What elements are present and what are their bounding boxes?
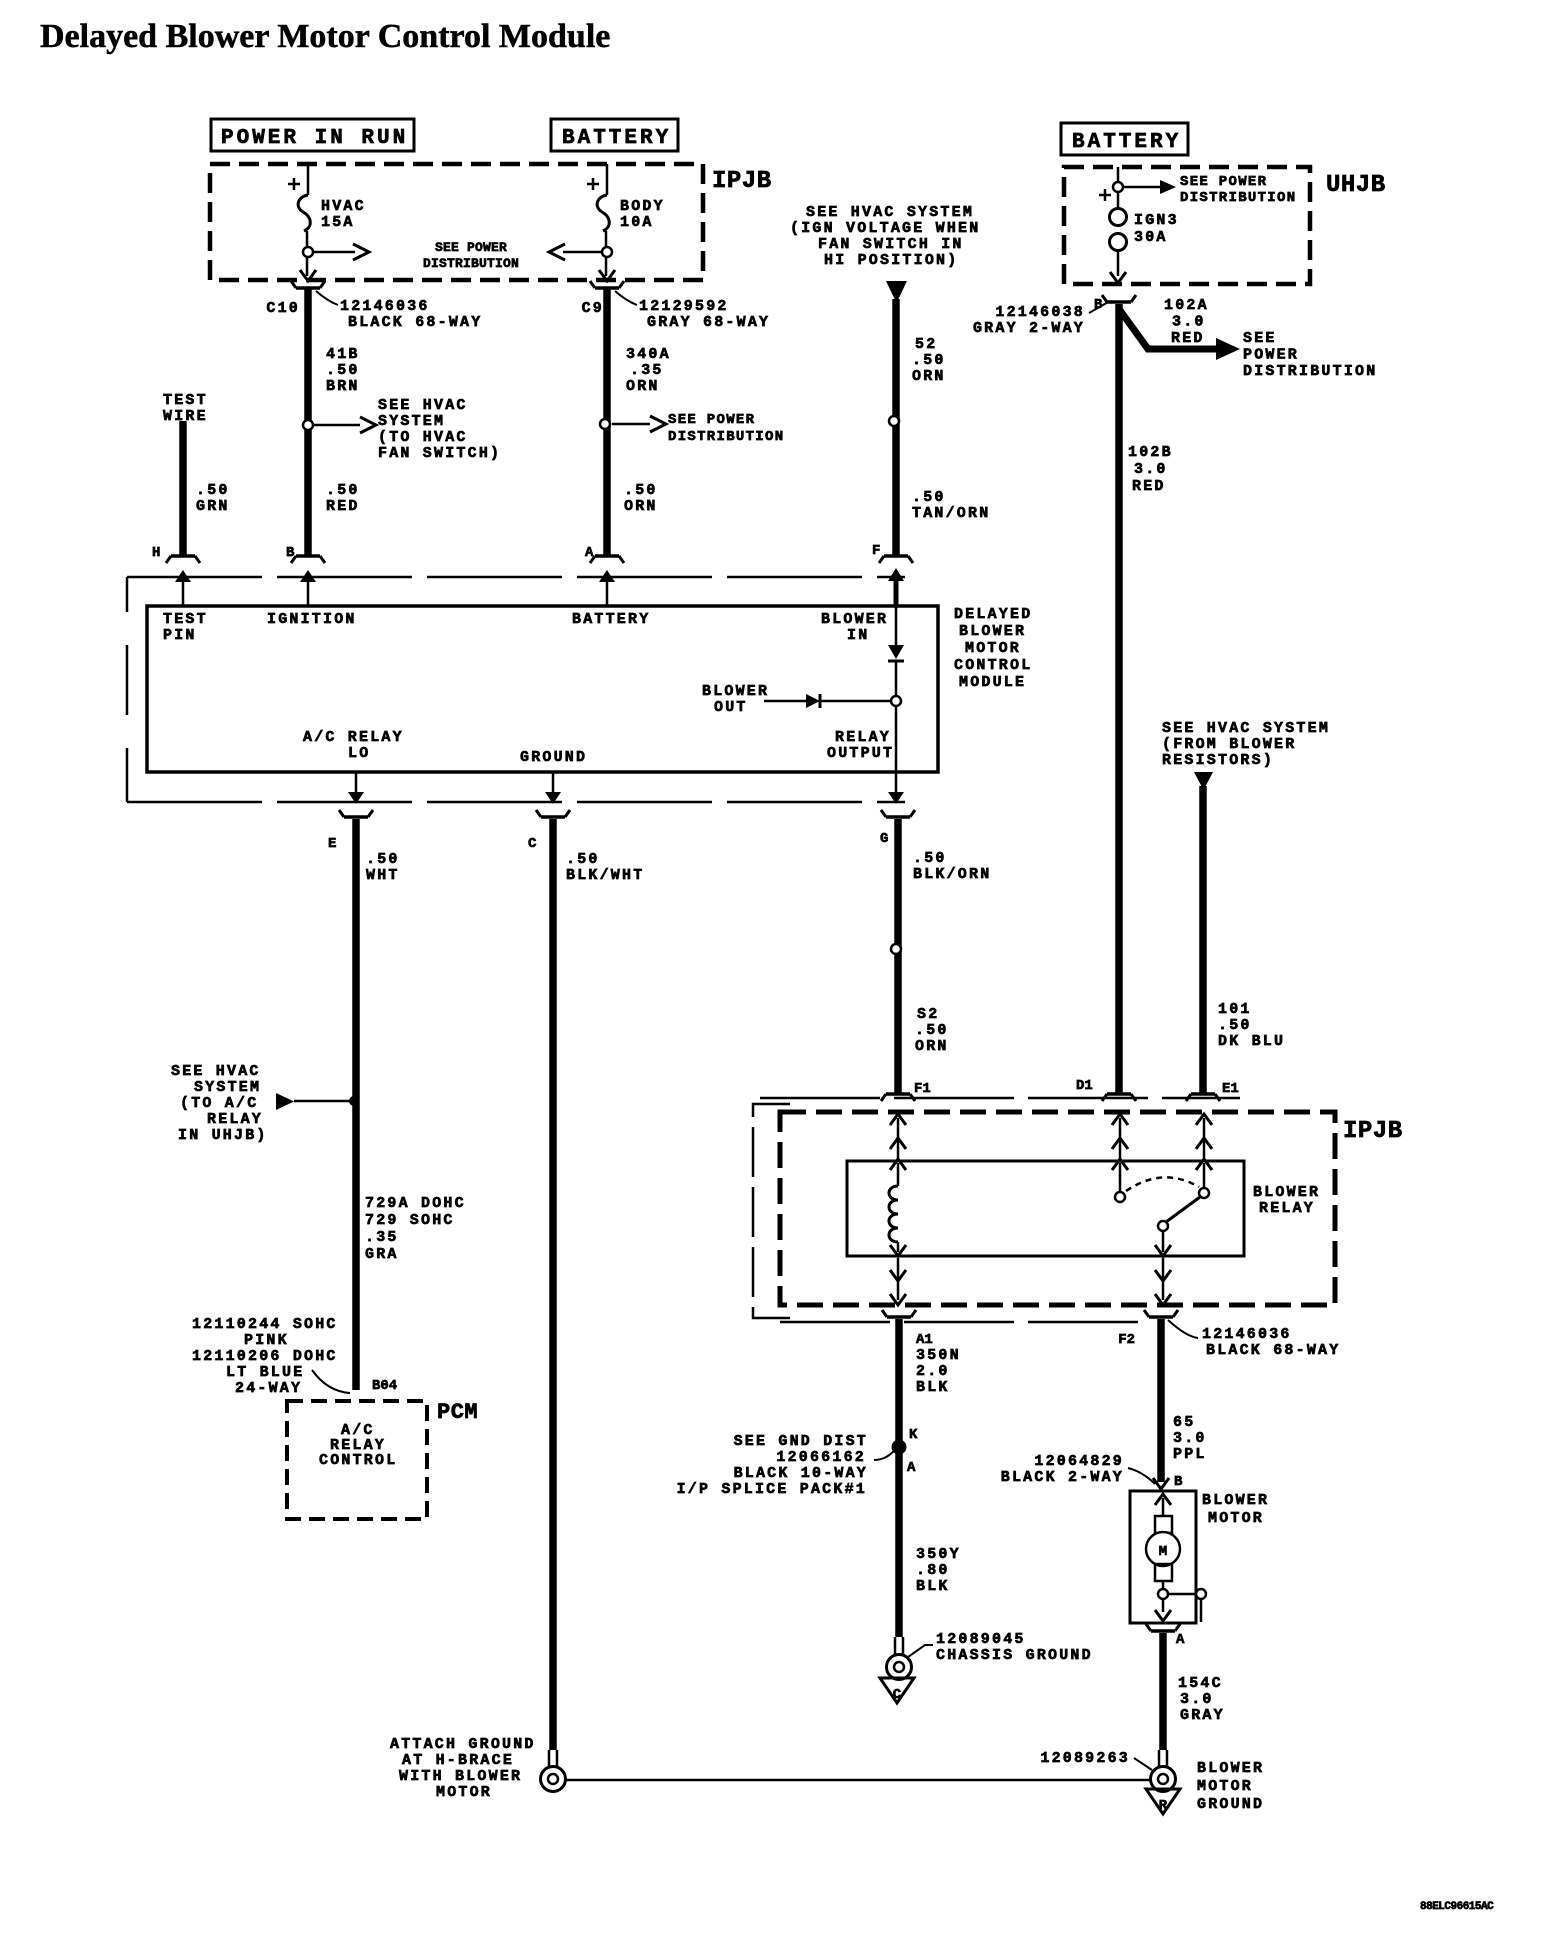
svg-text:BATTERY: BATTERY: [1072, 131, 1181, 154]
pin A1 pass-through arrows (coil ground): [890, 1258, 906, 1305]
svg-text:B04: B04: [372, 1378, 397, 1394]
pin D1 (IPJB): [1076, 1078, 1093, 1094]
node POWER IN RUN (source box): [211, 119, 414, 151]
svg-text:RED: RED: [1132, 478, 1166, 495]
svg-text:RESISTORS): RESISTORS): [1162, 752, 1274, 769]
motor brush (top): [1155, 1516, 1172, 1533]
svg-text:BLOWER: BLOWER: [1197, 1760, 1264, 1777]
pin arrow G relay output: [827, 729, 904, 804]
svg-text:H: H: [152, 545, 160, 561]
svg-text:M: M: [1159, 1544, 1167, 1560]
svg-text:BLOWER: BLOWER: [1202, 1492, 1269, 1509]
svg-text:CONTROL: CONTROL: [319, 1452, 397, 1469]
svg-text:BLK/WHT: BLK/WHT: [566, 867, 644, 884]
pin F1 (IPJB): [914, 1081, 931, 1097]
svg-text:RED: RED: [326, 498, 360, 515]
connector 12089263: [1040, 1750, 1152, 1770]
svg-text:.50: .50: [326, 482, 360, 499]
wire 102A 3.0 RED branch: [1119, 309, 1240, 360]
label 65 3.0 PPL: [1173, 1414, 1207, 1463]
svg-text:(IGN VOLTAGE WHEN: (IGN VOLTAGE WHEN: [790, 220, 980, 237]
svg-text:GRAY 68-WAY: GRAY 68-WAY: [647, 314, 770, 331]
svg-text:IPJB: IPJB: [1343, 1118, 1403, 1145]
pin A (module battery): [585, 545, 594, 561]
label 102B 3.0 RED: [1128, 444, 1173, 495]
node splice to power distribution: [600, 419, 610, 429]
connector end A: [590, 556, 624, 563]
pin C: [528, 836, 537, 852]
label ATTACH GROUND AT H-BRACE WITH BLOWER MOTOR: [390, 1736, 536, 1801]
svg-text:SEE: SEE: [1243, 330, 1277, 347]
svg-text:12110244 SOHC: 12110244 SOHC: [192, 1316, 338, 1333]
svg-text:BATTERY: BATTERY: [572, 611, 650, 628]
svg-text:GRA: GRA: [365, 1246, 399, 1263]
svg-text:41B: 41B: [326, 346, 360, 363]
svg-text:LO: LO: [348, 745, 370, 762]
junction block IPJB (instrument panel): [210, 164, 703, 280]
svg-text:FAN SWITCH): FAN SWITCH): [378, 445, 501, 462]
svg-text:.80: .80: [916, 1562, 950, 1579]
svg-text:IGNITION: IGNITION: [267, 611, 357, 628]
wire 350 BLK/WHT (ground): [536, 810, 570, 1750]
connector face line (IPJB top): [760, 1097, 1240, 1100]
svg-text:3.0: 3.0: [1173, 1430, 1207, 1447]
svg-text:PIN: PIN: [163, 627, 197, 644]
svg-text:ORN: ORN: [626, 378, 660, 395]
svg-text:GRAY: GRAY: [1180, 1707, 1225, 1724]
wire fuse HVAC output: [306, 231, 309, 276]
svg-text:SEE HVAC: SEE HVAC: [171, 1063, 261, 1080]
svg-text:.50: .50: [366, 851, 400, 868]
label 12089045 CHASSIS GROUND: [908, 1631, 1093, 1664]
relay switch output: [1155, 1231, 1171, 1256]
svg-text:.50: .50: [913, 850, 947, 867]
fuse BODY 10A: [597, 195, 665, 231]
label .50 WHT: [366, 851, 400, 884]
wire 65 3.0 PPL: [1144, 1310, 1178, 1482]
label SEE HVAC SYSTEM (IGN VOLTAGE WHEN FAN SWITCH IN HI POSITION): [790, 204, 980, 269]
label BLOWER RELAY: [1253, 1184, 1320, 1217]
svg-text:88ELC96615AC: 88ELC96615AC: [1420, 1901, 1494, 1913]
svg-text:.50: .50: [566, 851, 600, 868]
svg-text:D1: D1: [1076, 1078, 1093, 1094]
pin B (module ignition): [286, 545, 295, 561]
connector C9 12129592 GRAY 68-WAY: [582, 281, 771, 331]
polarity + (IGN3): [1099, 189, 1111, 201]
diode blower out (internal): [764, 694, 891, 708]
document number: [1420, 1901, 1494, 1913]
svg-text:BLACK 2-WAY: BLACK 2-WAY: [1001, 1469, 1124, 1486]
node BATTERY (source box, UHJB): [1061, 123, 1188, 155]
svg-text:PPL: PPL: [1173, 1446, 1207, 1463]
svg-text:.35: .35: [365, 1229, 399, 1246]
node BODY fuse tap: [602, 247, 612, 257]
svg-text:GRN: GRN: [196, 498, 230, 515]
svg-text:24-WAY: 24-WAY: [235, 1380, 302, 1397]
svg-text:BLOWER: BLOWER: [959, 623, 1026, 640]
svg-text:15A: 15A: [321, 214, 355, 231]
label 102A 3.0 RED: [1164, 297, 1209, 347]
svg-text:GROUND: GROUND: [520, 749, 587, 766]
diode (blower in, internal): [888, 607, 904, 697]
svg-text:C9: C9: [582, 300, 604, 317]
pin E: [328, 836, 336, 852]
module boundary (connector face lines): [127, 577, 905, 802]
svg-text:12066162: 12066162: [776, 1449, 866, 1466]
relay contact E1: [1196, 1159, 1212, 1198]
label BLOWER OUT: [702, 683, 769, 716]
svg-text:IN UHJB): IN UHJB): [178, 1127, 268, 1144]
module DELAYED BLOWER MOTOR CONTROL MODULE body: [147, 606, 938, 772]
connector end H: [166, 556, 200, 563]
svg-text:.50: .50: [326, 362, 360, 379]
svg-text:ORN: ORN: [624, 498, 658, 515]
label SEE POWER DISTRIBUTION (102A): [1243, 330, 1377, 380]
svg-text:POWER: POWER: [1243, 347, 1299, 364]
label SEE HVAC SYSTEM (TO A/C RELAY IN UHJB): [171, 1063, 268, 1144]
wire fuse BODY output: [605, 231, 608, 276]
svg-text:12089045: 12089045: [936, 1631, 1026, 1648]
pin B (blower motor): [1174, 1474, 1183, 1490]
svg-text:SEE HVAC SYSTEM: SEE HVAC SYSTEM: [1162, 720, 1330, 737]
svg-text:C: C: [893, 1687, 902, 1703]
svg-text:AT H-BRACE: AT H-BRACE: [402, 1752, 514, 1769]
wire BATTERY feed: [606, 164, 609, 195]
svg-text:ORN: ORN: [912, 368, 946, 385]
svg-text:GRAY 2-WAY: GRAY 2-WAY: [973, 320, 1085, 337]
title: [40, 18, 610, 55]
svg-text:SYSTEM: SYSTEM: [378, 413, 445, 430]
junction block IPJB (lower) outer bracket: [753, 1104, 790, 1318]
relay coil: [889, 1159, 906, 1256]
polarity + (HVAC fuse): [288, 178, 300, 190]
svg-text:RELAY: RELAY: [207, 1111, 263, 1128]
svg-text:10A: 10A: [620, 214, 654, 231]
pin H (module test pin): [152, 545, 160, 561]
wire 102B 3.0 RED: [1102, 295, 1136, 1101]
svg-text:IGN3: IGN3: [1134, 212, 1179, 229]
svg-text:MOTOR: MOTOR: [965, 640, 1021, 657]
label IPJB: [712, 168, 772, 195]
svg-text:BLACK 10-WAY: BLACK 10-WAY: [734, 1465, 868, 1482]
pin B (UHJB): [1094, 297, 1103, 313]
svg-text:BLK: BLK: [916, 1578, 950, 1595]
fuse HVAC 15A: [298, 195, 366, 231]
svg-text:BLK: BLK: [916, 1379, 950, 1396]
svg-text:(FROM BLOWER: (FROM BLOWER: [1162, 736, 1296, 753]
label 350Y .80 BLK: [916, 1546, 961, 1595]
svg-text:3.0: 3.0: [1134, 461, 1168, 478]
svg-text:E: E: [328, 836, 336, 852]
motor brush (bottom): [1155, 1564, 1172, 1581]
label .50 GRN: [196, 482, 230, 515]
source arrow (HVAC hi feed): [886, 281, 907, 303]
svg-text:101: 101: [1218, 1001, 1252, 1018]
pin A1: [916, 1332, 933, 1348]
pin B04 (PCM): [372, 1378, 397, 1394]
connector 12146036 BLACK 68-WAY (lower): [1168, 1320, 1340, 1359]
node splice on blower-in wire: [889, 416, 899, 426]
label 340A .35 ORN: [626, 346, 671, 395]
svg-text:.50: .50: [912, 352, 946, 369]
svg-text:3.0: 3.0: [1180, 1691, 1214, 1708]
motor BLOWER MOTOR body: [1130, 1491, 1196, 1623]
svg-text:.50: .50: [196, 482, 230, 499]
wire 350N 2.0 BLK / 350Y .80 BLK: [882, 1310, 916, 1637]
wire 340A .35 ORN (battery): [603, 288, 611, 556]
label .50 BLK/ORN: [913, 850, 991, 883]
label SEE POWER DISTRIBUTION (UHJB): [1180, 174, 1296, 206]
label BLOWER MOTOR: [1202, 1492, 1269, 1527]
pin C9 exit arrow: [599, 270, 615, 281]
pin F (module blower in): [872, 543, 880, 559]
svg-text:MOTOR: MOTOR: [1208, 1510, 1264, 1527]
connector 12064829 BLACK 2-WAY: [1001, 1453, 1155, 1486]
wire 729A .35 GRA (a/c relay lo): [339, 810, 373, 1390]
svg-text:12129592: 12129592: [639, 298, 729, 315]
polarity + (BODY fuse): [587, 178, 599, 190]
svg-text:F2: F2: [1118, 1332, 1135, 1348]
svg-text:SEE HVAC SYSTEM: SEE HVAC SYSTEM: [806, 204, 974, 221]
svg-text:OUTPUT: OUTPUT: [827, 745, 894, 762]
svg-text:.50: .50: [912, 489, 946, 506]
label 101 .50 DK BLU: [1218, 1001, 1285, 1050]
svg-text:IN: IN: [847, 627, 869, 644]
label .50 ORN: [624, 482, 658, 515]
svg-text:DELAYED: DELAYED: [954, 606, 1032, 623]
svg-text:S2: S2: [917, 1006, 939, 1023]
node splice to HVAC fan switch: [303, 420, 313, 430]
svg-text:729 SOHC: 729 SOHC: [365, 1212, 455, 1229]
svg-text:DISTRIBUTION: DISTRIBUTION: [1243, 363, 1377, 380]
svg-text:SEE HVAC: SEE HVAC: [378, 397, 468, 414]
node battery tap (UHJB): [1113, 182, 1123, 192]
pin K: [909, 1427, 918, 1443]
relay switch blade: [1158, 1197, 1200, 1231]
junction block IPJB (lower): [780, 1112, 1335, 1305]
svg-text:BODY: BODY: [620, 198, 665, 215]
svg-text:12146036: 12146036: [340, 298, 430, 315]
svg-text:E1: E1: [1222, 1081, 1239, 1097]
svg-text:BLACK 68-WAY: BLACK 68-WAY: [348, 314, 482, 331]
svg-text:154C: 154C: [1178, 1675, 1223, 1692]
svg-text:I/P SPLICE PACK#1: I/P SPLICE PACK#1: [677, 1481, 867, 1498]
ground blower motor ground (R): [1146, 1789, 1180, 1814]
svg-text:POWER IN RUN: POWER IN RUN: [221, 127, 408, 150]
pin A (blower motor): [1176, 1632, 1185, 1648]
svg-text:A1: A1: [916, 1332, 933, 1348]
svg-text:MOTOR: MOTOR: [436, 1784, 492, 1801]
wire battery feed (UHJB): [1117, 167, 1120, 182]
svg-text:52: 52: [915, 336, 937, 353]
node HVAC fuse tap: [303, 247, 313, 257]
svg-text:DISTRIBUTION: DISTRIBUTION: [423, 256, 519, 271]
svg-text:F1: F1: [914, 1081, 931, 1097]
connector 12110244/12110206 24-WAY (PCM): [192, 1316, 350, 1397]
label BLOWER MOTOR GROUND: [1197, 1760, 1264, 1813]
svg-text:TEST: TEST: [163, 392, 208, 409]
svg-text:FAN SWITCH IN: FAN SWITCH IN: [818, 236, 964, 253]
svg-text:BLOWER: BLOWER: [1253, 1184, 1320, 1201]
label S2 .50 ORN: [915, 1006, 949, 1055]
svg-text:RELAY: RELAY: [835, 729, 891, 746]
wire S2 .50 ORN / BLK-ORN (relay output): [881, 810, 915, 1101]
svg-text:BRN: BRN: [326, 378, 360, 395]
svg-text:SEE POWER: SEE POWER: [668, 412, 755, 428]
svg-text:A: A: [1176, 1632, 1185, 1648]
node splice I/P splice pack #1: [893, 1441, 906, 1454]
svg-text:MODULE: MODULE: [959, 674, 1026, 691]
pin arrow E a/c relay lo: [303, 729, 404, 804]
arrow into blower motor: [1153, 1478, 1169, 1489]
pin arrow B ignition: [267, 570, 357, 628]
label 52 .50 ORN: [912, 336, 946, 385]
svg-text:TEST: TEST: [163, 611, 208, 628]
label SEE GND DIST 12066162 BLACK 10-WAY I/P SPLICE PACK#1: [677, 1433, 895, 1498]
arrow see HVAC system (to fan switch): [313, 417, 376, 433]
label .50 TAN/ORN: [912, 489, 990, 522]
svg-text:SEE GND DIST: SEE GND DIST: [734, 1433, 868, 1450]
pin E1 pass-through arrows (NC contact): [1196, 1114, 1212, 1161]
label 41B .50 BRN: [326, 346, 360, 395]
ground eyelet (H-brace): [541, 1750, 566, 1792]
label 729A DOHC 729 SOHC .35 GRA: [365, 1195, 466, 1263]
svg-text:C: C: [528, 836, 537, 852]
svg-text:G: G: [880, 831, 888, 847]
label 350N 2.0 BLK: [916, 1347, 961, 1396]
connector C10 12146036 BLACK 68-WAY: [266, 281, 482, 331]
wire test .50 GRN: [179, 421, 187, 556]
svg-text:RELAY: RELAY: [1259, 1200, 1315, 1217]
wire 101 .50 DK BLU: [1186, 786, 1220, 1101]
pin arrow A battery: [572, 570, 650, 628]
svg-text:F: F: [872, 543, 880, 559]
arrow see power distribution (UHJB): [1123, 180, 1176, 194]
source arrow (from blower resistors): [1194, 772, 1213, 790]
svg-text:3.0: 3.0: [1172, 314, 1206, 331]
svg-text:BATTERY: BATTERY: [562, 127, 671, 150]
svg-text:DK BLU: DK BLU: [1218, 1033, 1285, 1050]
connector end B: [291, 556, 325, 563]
svg-text:RED: RED: [1171, 330, 1205, 347]
svg-text:C10: C10: [266, 300, 300, 317]
junction block UHJB: [1064, 167, 1310, 284]
wire 41B .50 BRN (ignition): [304, 288, 312, 556]
svg-text:HI POSITION): HI POSITION): [824, 252, 958, 269]
svg-text:SEE POWER: SEE POWER: [435, 240, 507, 255]
svg-text:BLOWER: BLOWER: [821, 611, 888, 628]
svg-text:K: K: [909, 1427, 918, 1443]
svg-text:12110206 DOHC: 12110206 DOHC: [192, 1348, 338, 1365]
svg-text:A/C RELAY: A/C RELAY: [303, 729, 404, 746]
label IPJB (lower): [1343, 1118, 1403, 1145]
svg-text:PINK: PINK: [244, 1332, 289, 1349]
label UHJB: [1326, 172, 1386, 199]
svg-text:CONTROL: CONTROL: [954, 657, 1032, 674]
label SEE POWER DISTRIBUTION (right of C9): [668, 412, 784, 445]
pin F1 pass-through arrows (coil feed): [890, 1114, 906, 1161]
svg-text:BLACK 68-WAY: BLACK 68-WAY: [1206, 1342, 1340, 1359]
wire 52 .50 ORN / .50 TAN-ORN (blower in): [892, 299, 900, 556]
node BATTERY (source box, IPJB): [551, 119, 678, 151]
svg-text:TAN/ORN: TAN/ORN: [912, 505, 990, 522]
wire IGN3 output: [1110, 251, 1126, 283]
label 154C 3.0 GRAY: [1178, 1675, 1225, 1724]
circuit breaker IGN3 30A: [1110, 192, 1179, 251]
svg-text:729A DOHC: 729A DOHC: [365, 1195, 466, 1212]
svg-text:WITH BLOWER: WITH BLOWER: [399, 1768, 522, 1785]
label .50 BLK/WHT: [566, 851, 644, 884]
svg-text:12146038: 12146038: [995, 304, 1085, 321]
ground eyelet 12089263: [1151, 1750, 1176, 1792]
svg-text:SEE POWER: SEE POWER: [1180, 174, 1267, 190]
svg-text:102B: 102B: [1128, 444, 1173, 461]
motor output node: [1158, 1581, 1206, 1622]
pin F2: [1118, 1332, 1135, 1348]
svg-text:UHJB: UHJB: [1326, 172, 1386, 199]
pin E1 (IPJB): [1222, 1081, 1239, 1097]
label SEE HVAC SYSTEM (FROM BLOWER RESISTORS): [1162, 720, 1330, 769]
svg-text:DISTRIBUTION: DISTRIBUTION: [1180, 190, 1296, 206]
arrow see power distribution (from 340A): [612, 416, 666, 432]
relay BLOWER RELAY body: [847, 1161, 1244, 1256]
svg-text:OUT: OUT: [714, 699, 748, 716]
svg-text:.50: .50: [915, 1022, 949, 1039]
svg-text:CHASSIS GROUND: CHASSIS GROUND: [936, 1647, 1093, 1664]
label SEE POWER DISTRIBUTION (IPJB): [423, 240, 519, 271]
svg-text:SYSTEM: SYSTEM: [194, 1079, 261, 1096]
pin arrow F blower in: [821, 568, 904, 644]
ground chassis ground (C): [880, 1678, 914, 1703]
wire ground strap (to blower motor ground): [566, 1779, 1152, 1782]
svg-text:340A: 340A: [626, 346, 671, 363]
connector face line (IPJB bottom): [780, 1321, 1140, 1324]
relay contact D1 (common): [1112, 1159, 1128, 1202]
svg-text:(TO A/C: (TO A/C: [180, 1095, 258, 1112]
svg-text:65: 65: [1173, 1414, 1195, 1431]
label SEE HVAC SYSTEM (TO HVAC FAN SWITCH): [378, 397, 501, 462]
svg-text:.50: .50: [624, 482, 658, 499]
svg-text:350N: 350N: [916, 1347, 961, 1364]
pin F2 pass-through arrows (relay output): [1155, 1258, 1171, 1305]
svg-text:DISTRIBUTION: DISTRIBUTION: [668, 429, 784, 445]
svg-text:PCM: PCM: [437, 1400, 478, 1425]
module PCM: [287, 1400, 478, 1519]
svg-text:ORN: ORN: [915, 1038, 949, 1055]
label .50 RED: [326, 482, 360, 515]
node relay output junction: [891, 696, 901, 772]
pin arrow H test pin: [163, 570, 208, 644]
svg-text:MOTOR: MOTOR: [1197, 1778, 1253, 1795]
svg-text:.35: .35: [630, 362, 664, 379]
pin D1 pass-through arrows (common feed): [1112, 1114, 1128, 1161]
pin G: [880, 831, 888, 847]
svg-text:HVAC: HVAC: [321, 198, 366, 215]
svg-text:12146036: 12146036: [1202, 1326, 1292, 1343]
svg-text:2.0: 2.0: [916, 1363, 950, 1380]
arrow see power distribution (from HVAC fuse): [313, 244, 369, 260]
ground eyelet 12089045: [887, 1637, 912, 1680]
arrow see power distribution (from BODY fuse): [549, 244, 602, 260]
connector 12146038 GRAY 2-WAY: [973, 301, 1110, 337]
pin arrow C ground: [520, 749, 587, 804]
svg-text:BLK/ORN: BLK/ORN: [913, 866, 991, 883]
label A/C RELAY CONTROL: [319, 1422, 397, 1469]
pin C10 exit arrow: [300, 270, 316, 281]
svg-text:LT BLUE: LT BLUE: [226, 1364, 304, 1381]
wire 154C 3.0 GRAY: [1146, 1624, 1180, 1750]
motor armature M: [1146, 1532, 1180, 1566]
